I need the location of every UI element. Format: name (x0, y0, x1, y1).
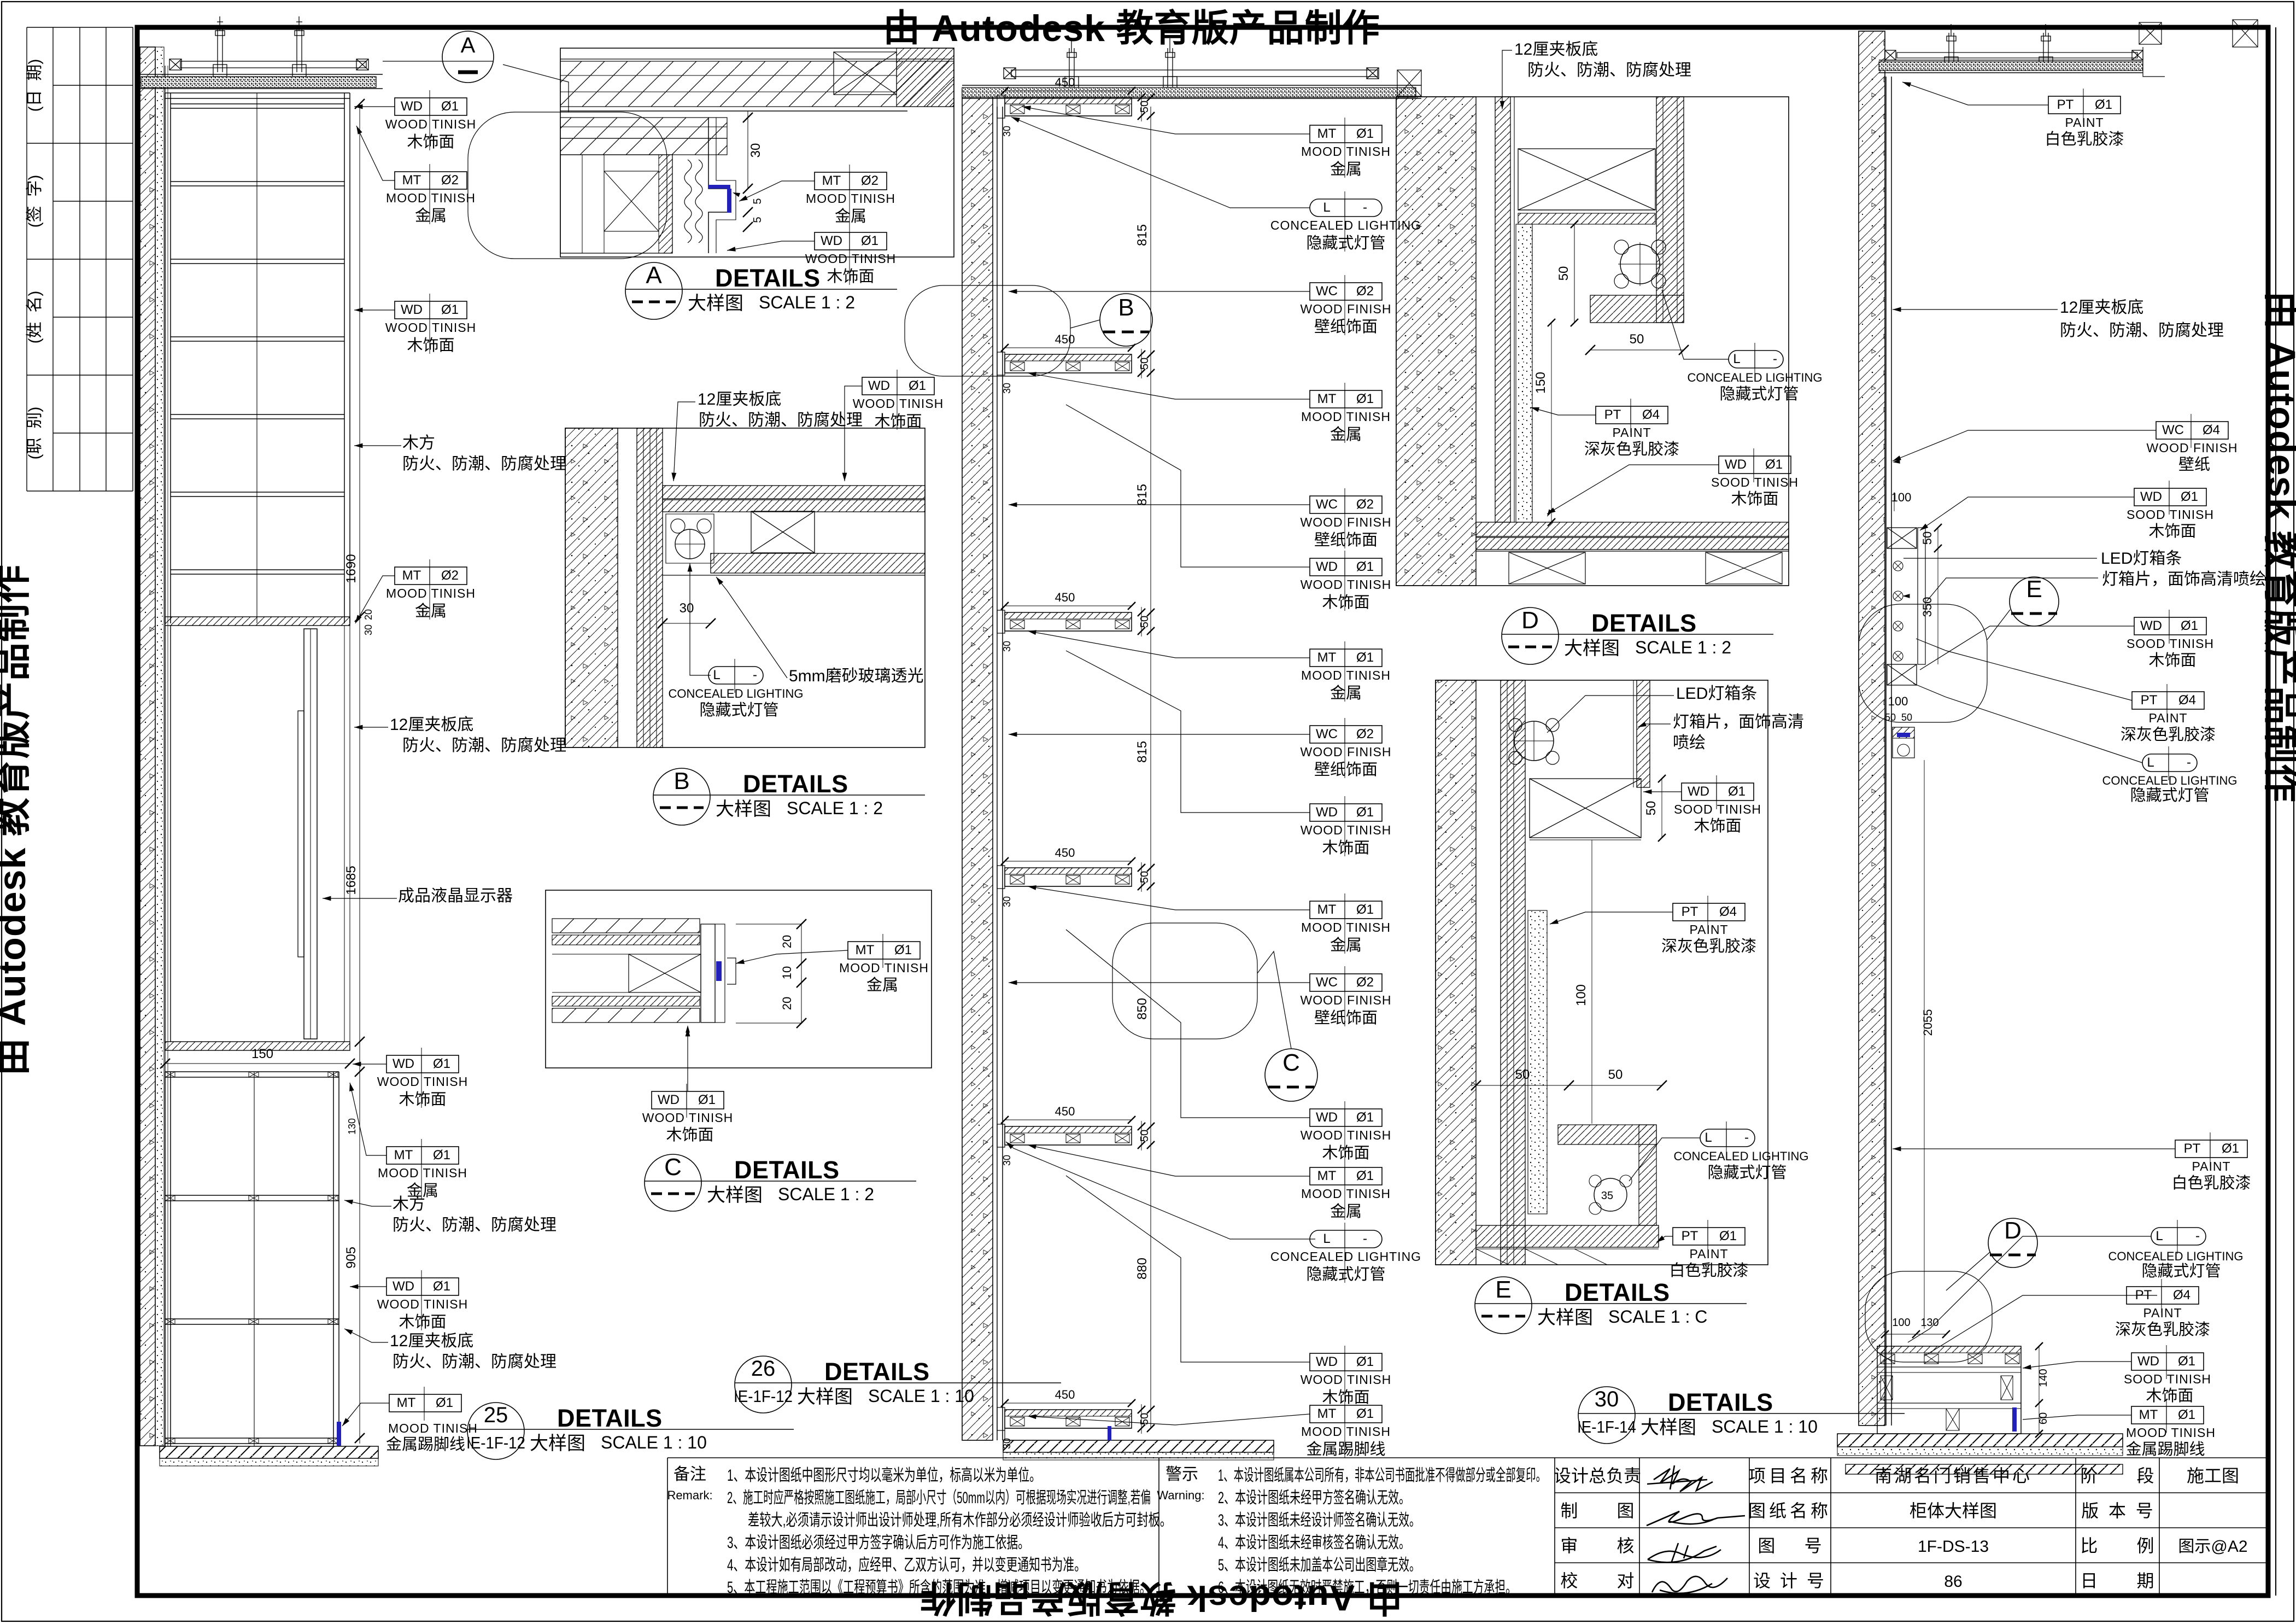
svg-text:450: 450 (1055, 1105, 1075, 1118)
label PT Ø1 (1673, 1228, 1745, 1245)
svg-text:12厘夹板底: 12厘夹板底 (390, 1332, 473, 1350)
drawing 25 ceiling channel (180, 61, 366, 68)
svg-text:防火、防潮、防腐处理: 防火、防潮、防腐处理 (2060, 322, 2224, 340)
drawing 26 right ceiling corner (1397, 70, 1421, 96)
svg-text:4、本设计如有局部改动，应经甲、乙双方认可，并以变更通知书为: 4、本设计如有局部改动，应经甲、乙双方认可，并以变更通知书为准。 (727, 1556, 1086, 1574)
svg-text:WOOD TINISH: WOOD TINISH (853, 396, 944, 411)
label MT Ø1 (1310, 649, 1382, 667)
svg-text:CONCEALED LIGHTING: CONCEALED LIGHTING (1674, 1149, 1809, 1163)
svg-text:比 例: 比 例 (2080, 1536, 2154, 1556)
svg-text:WC: WC (1316, 975, 1338, 990)
svg-text:L: L (1733, 352, 1740, 366)
label MT Ø2 (395, 567, 467, 585)
label PT Ø4 (2127, 1287, 2199, 1304)
svg-text:130: 130 (1920, 1317, 1938, 1329)
svg-text:金属: 金属 (415, 602, 447, 620)
svg-text:图 号: 图 号 (1758, 1536, 1821, 1556)
svg-text:20: 20 (363, 609, 374, 620)
svg-text:3、本设计图纸必须经过甲方签字确认后方可作为施工依据。: 3、本设计图纸必须经过甲方签字确认后方可作为施工依据。 (727, 1534, 1029, 1552)
svg-text:PAINT: PAINT (2148, 711, 2187, 725)
svg-text:PAINT: PAINT (2065, 115, 2104, 130)
title block A (625, 262, 682, 319)
svg-text:灯箱片，面饰高清喷绘: 灯箱片，面饰高清喷绘 (2102, 570, 2266, 588)
svg-text:隐藏式灯管: 隐藏式灯管 (1306, 1265, 1385, 1283)
svg-text:D: D (1521, 607, 1539, 634)
detail E lightbox panel (1637, 680, 1650, 787)
svg-text:隐藏式灯管: 隐藏式灯管 (1719, 385, 1799, 403)
svg-text:12厘夹板底: 12厘夹板底 (390, 716, 473, 734)
svg-text:备注: 备注 (673, 1465, 706, 1483)
svg-text:柜体大样图: 柜体大样图 (1910, 1501, 1997, 1521)
drawing 26 shelf 6 (1005, 1410, 1132, 1428)
drawing 25 wall plaster stipple (155, 47, 164, 1446)
svg-text:大样图: 大样图 (1537, 1307, 1593, 1328)
title block 30 IE-1F-14 (1578, 1387, 1635, 1444)
svg-text:Ø2: Ø2 (1356, 497, 1374, 512)
svg-text:Ø1: Ø1 (2181, 618, 2198, 633)
svg-text:140: 140 (2037, 1369, 2049, 1387)
svg-text:大样图: 大样图 (1564, 638, 1620, 659)
svg-text:木饰面: 木饰面 (399, 1313, 446, 1331)
label WD Ø1 (395, 301, 467, 319)
detail D light fixture (1620, 244, 1660, 284)
drawing 30 ceiling slab band (1879, 62, 2143, 71)
detail A insulation strip (684, 160, 692, 243)
svg-text:木饰面: 木饰面 (2148, 522, 2196, 540)
drawing 30 wall panel lines (1885, 77, 1887, 1426)
svg-text:Ø1: Ø1 (1356, 392, 1374, 406)
detail C board bands (552, 919, 700, 933)
svg-text:Ø1: Ø1 (1356, 126, 1374, 141)
svg-text:SOOD TINISH: SOOD TINISH (2127, 636, 2214, 651)
svg-text:PAINT: PAINT (2143, 1306, 2182, 1320)
svg-text:MOOD TINISH: MOOD TINISH (1301, 668, 1391, 682)
title block table (1555, 1458, 2266, 1596)
svg-text:MOOD TINISH: MOOD TINISH (1301, 410, 1391, 424)
svg-text:1690: 1690 (344, 554, 359, 583)
detail B lower band (711, 553, 925, 573)
svg-text:Ø1: Ø1 (1728, 784, 1746, 799)
svg-text:DETAILS: DETAILS (743, 770, 848, 798)
svg-text:Ø2: Ø2 (1356, 727, 1374, 741)
svg-text:LED灯箱条: LED灯箱条 (2101, 550, 2182, 568)
svg-text:Ø1: Ø1 (1356, 902, 1374, 917)
svg-text:1、本设计图纸属本公司所有，非本公司书面批准不得做部分或全部: 1、本设计图纸属本公司所有，非本公司书面批准不得做部分或全部复印。 (1218, 1467, 1546, 1485)
svg-text:WD: WD (2140, 618, 2162, 633)
svg-text:WOOD FINISH: WOOD FINISH (1301, 515, 1392, 529)
svg-text:CONCEALED LIGHTING: CONCEALED LIGHTING (669, 687, 804, 700)
svg-text:L: L (1323, 1231, 1330, 1246)
svg-text:MT: MT (856, 943, 875, 957)
svg-text:隐藏式灯管: 隐藏式灯管 (1306, 234, 1385, 252)
svg-text:深灰色乳胶漆: 深灰色乳胶漆 (1661, 937, 1756, 955)
label MT Ø1 (1310, 1405, 1382, 1423)
svg-text:Ø2: Ø2 (441, 568, 459, 583)
drawing 30 top right brackets (2139, 22, 2162, 44)
svg-text:815: 815 (1135, 224, 1150, 246)
drawing 30 blue skirting accent (2012, 1407, 2017, 1432)
svg-text:L: L (2156, 1229, 2163, 1243)
svg-text:制 图: 制 图 (1560, 1501, 1634, 1521)
svg-text:金属: 金属 (1330, 684, 1362, 702)
svg-text:2055: 2055 (1921, 1009, 1935, 1036)
callout circle A (442, 31, 494, 83)
svg-text:大样图: 大样图 (1641, 1417, 1696, 1438)
svg-text:WOOD TINISH: WOOD TINISH (1301, 577, 1391, 592)
svg-text:E: E (1495, 1276, 1511, 1303)
svg-text:WC: WC (1316, 727, 1338, 741)
svg-text:Ø1: Ø1 (2178, 1354, 2195, 1369)
svg-text:MOOD TINISH: MOOD TINISH (1301, 144, 1391, 159)
drawing 26 leader lines (1022, 107, 1310, 134)
svg-text:-: - (1773, 352, 1777, 366)
svg-text:大样图: 大样图 (797, 1387, 853, 1407)
detail D outer box (1396, 97, 1789, 586)
detail D concrete column (1396, 97, 1476, 586)
svg-text:深灰色乳胶漆: 深灰色乳胶漆 (1584, 440, 1679, 458)
svg-text:大样图: 大样图 (716, 799, 771, 820)
svg-text:350: 350 (1920, 597, 1934, 617)
svg-text:审 核: 审 核 (1560, 1536, 1634, 1556)
svg-text:CONCEALED LIGHTING: CONCEALED LIGHTING (1688, 371, 1823, 384)
svg-text:IE-1F-12: IE-1F-12 (466, 1433, 525, 1452)
svg-text:WD: WD (821, 233, 842, 248)
svg-text:MOOD TINISH: MOOD TINISH (1301, 1187, 1391, 1201)
drawing 26 ceiling slab band (962, 87, 1416, 97)
svg-text:木饰面: 木饰面 (1731, 490, 1778, 508)
drawing 30 ceiling channel (1897, 52, 2137, 58)
drawing 26 ceiling channel (1011, 70, 1378, 77)
svg-text:Ø1: Ø1 (433, 1148, 450, 1162)
drawing 30 floor (1837, 1434, 2123, 1447)
svg-text:Ø1: Ø1 (2178, 1407, 2195, 1422)
detail A blue accents (708, 185, 730, 189)
label WC Ø2 (1310, 974, 1382, 991)
svg-text:图纸名称: 图纸名称 (1748, 1501, 1831, 1521)
svg-text:Ø1: Ø1 (1356, 1169, 1374, 1183)
svg-text:木饰面: 木饰面 (1694, 817, 1741, 835)
svg-text:5: 5 (752, 198, 764, 204)
svg-text:Ø1: Ø1 (2222, 1141, 2239, 1156)
svg-text:(姓 名): (姓 名) (26, 291, 44, 344)
svg-text:WOOD TINISH: WOOD TINISH (1301, 1128, 1391, 1142)
svg-text:MT: MT (1317, 650, 1337, 665)
svg-text:MT: MT (397, 1395, 416, 1410)
detail E concrete column (1436, 680, 1476, 1265)
svg-text:30: 30 (748, 143, 763, 158)
svg-text:100: 100 (1574, 984, 1589, 1006)
svg-text:1F-DS-13: 1F-DS-13 (1918, 1538, 1989, 1556)
svg-text:木饰面: 木饰面 (1322, 1144, 1369, 1162)
svg-text:Ø1: Ø1 (1356, 1110, 1374, 1125)
label WC Ø4 (2156, 422, 2228, 439)
svg-text:50: 50 (1920, 531, 1934, 545)
svg-text:Ø1: Ø1 (1719, 1229, 1737, 1243)
label WD Ø1 (2134, 617, 2206, 635)
detail B ceiling band (663, 486, 925, 499)
label L - (708, 667, 763, 684)
svg-text:MT: MT (1317, 902, 1337, 917)
detail C outer box (546, 890, 932, 1068)
detail A step profile (708, 118, 728, 253)
svg-text:Ø1: Ø1 (436, 1395, 453, 1410)
drawing 25 panel lines (165, 66, 166, 1446)
svg-text:C: C (1282, 1049, 1300, 1076)
svg-text:WD: WD (1316, 1110, 1338, 1125)
svg-text:深灰色乳胶漆: 深灰色乳胶漆 (2115, 1321, 2210, 1339)
svg-text:成品液晶显示器: 成品液晶显示器 (398, 887, 513, 905)
svg-text:50: 50 (1139, 616, 1151, 628)
label MT Ø1 (848, 942, 920, 959)
detail B x-box batten (751, 511, 815, 553)
svg-text:150: 150 (251, 1047, 273, 1061)
svg-text:SCALE 1 : 10: SCALE 1 : 10 (601, 1433, 707, 1452)
drawing 26 shelf 2 (1005, 354, 1132, 373)
detail D plywood strip (1495, 97, 1510, 522)
label WD Ø1 (386, 1278, 459, 1295)
drawing 25 ceiling hangers (213, 16, 227, 77)
svg-text:壁纸饰面: 壁纸饰面 (1314, 761, 1378, 779)
svg-text:-: - (2187, 755, 2191, 770)
svg-text:WD: WD (393, 1056, 414, 1071)
drawing 30 2055 dim (1924, 760, 1925, 1329)
detail E x-box (1530, 779, 1641, 838)
svg-text:12厘夹板底: 12厘夹板底 (698, 390, 781, 408)
svg-text:MOOD TINISH: MOOD TINISH (839, 961, 929, 975)
drawing 26 vertical dim line (1150, 107, 1151, 1428)
label WC Ø2 (1310, 726, 1382, 743)
detail marker E (2010, 577, 2059, 626)
detail D dims (1574, 224, 1575, 323)
svg-text:白色乳胶漆: 白色乳胶漆 (2171, 1174, 2251, 1192)
svg-text:L: L (713, 668, 720, 682)
label WD Ø1 (1310, 804, 1382, 821)
svg-text:20: 20 (780, 935, 794, 948)
detail E 50 50 dims (1476, 1085, 1662, 1086)
svg-text:SCALE 1 : 2: SCALE 1 : 2 (1635, 638, 1731, 657)
left margin signature table (27, 27, 133, 491)
label WD Ø1 (1682, 783, 1754, 801)
svg-text:CONCEALED LIGHTING: CONCEALED LIGHTING (1270, 1249, 1421, 1264)
svg-text:MOOD TINISH: MOOD TINISH (1301, 1424, 1391, 1439)
svg-text:Ø4: Ø4 (2203, 423, 2220, 437)
drawing 25 lcd display (298, 711, 304, 957)
drawing 30 dim 50 350 (1937, 528, 1938, 548)
svg-text:5、本工程施工范围以《工程预算书》所含的范围为准，增减项目以: 5、本工程施工范围以《工程预算书》所含的范围为准，增减项目以变更通知书为依据。 (727, 1579, 1151, 1597)
svg-text:防火、防潮、防腐处理: 防火、防潮、防腐处理 (402, 455, 566, 473)
callout region C rounded box (1112, 923, 1257, 1039)
svg-text:木饰面: 木饰面 (407, 336, 454, 354)
svg-text:905: 905 (344, 1247, 359, 1269)
label WD Ø1 (815, 232, 887, 250)
svg-text:PT: PT (1604, 407, 1621, 422)
title block C (645, 1154, 701, 1211)
svg-text:深灰色乳胶漆: 深灰色乳胶漆 (2121, 726, 2216, 744)
svg-text:Ø1: Ø1 (894, 943, 912, 957)
label L - (1310, 199, 1382, 217)
drawing 26 shelf 5 (1005, 1126, 1132, 1145)
svg-text:壁纸: 壁纸 (2178, 455, 2210, 474)
detail D right plywood (1656, 97, 1684, 323)
svg-text:20: 20 (780, 997, 794, 1010)
svg-text:PT: PT (2184, 1141, 2201, 1156)
svg-text:-: - (1744, 1130, 1749, 1145)
label WD Ø1 (386, 1055, 459, 1073)
drawing 26 concrete wall hatch (962, 89, 993, 1440)
svg-text:L: L (2147, 755, 2154, 770)
svg-text:MT: MT (822, 173, 841, 188)
svg-text:WD: WD (1316, 805, 1338, 820)
svg-text:-: - (1363, 200, 1367, 215)
svg-text:50: 50 (1630, 332, 1644, 347)
svg-text:SCALE 1 : C: SCALE 1 : C (1608, 1307, 1707, 1327)
label L - (1729, 350, 1783, 368)
label WD Ø1 (2134, 488, 2206, 506)
svg-text:12厘夹板底: 12厘夹板底 (1514, 40, 1598, 59)
svg-text:50: 50 (1139, 358, 1151, 370)
label WD Ø1 (1310, 1353, 1382, 1371)
label MT Ø2 (815, 172, 887, 190)
svg-text:-: - (753, 668, 757, 682)
svg-text:Ø1: Ø1 (2181, 489, 2198, 504)
svg-text:PT: PT (1682, 1229, 1698, 1243)
svg-text:WOOD FINISH: WOOD FINISH (1301, 302, 1392, 316)
detail E lower cove (1558, 1125, 1656, 1144)
svg-text:DETAILS: DETAILS (824, 1358, 930, 1386)
drawing 25 lower cabinet (165, 1072, 339, 1446)
svg-text:450: 450 (1055, 75, 1075, 89)
svg-text:(职 别): (职 别) (26, 407, 44, 460)
svg-text:木饰面: 木饰面 (2148, 651, 2196, 669)
drawing 30 small lighting assembly (1893, 727, 1914, 758)
svg-text:IE-1F-14: IE-1F-14 (1577, 1417, 1636, 1436)
svg-text:隐藏式灯管: 隐藏式灯管 (1707, 1164, 1787, 1182)
svg-text:WD: WD (401, 99, 423, 114)
svg-text:SOOD TINISH: SOOD TINISH (2124, 1372, 2211, 1386)
svg-text:30: 30 (363, 624, 374, 635)
svg-text:WOOD FINISH: WOOD FINISH (1301, 745, 1392, 759)
svg-text:日 期: 日 期 (2080, 1571, 2154, 1591)
svg-text:IE-1F-12: IE-1F-12 (734, 1387, 793, 1406)
svg-text:WD: WD (1688, 784, 1709, 799)
detail marker C (1265, 1049, 1317, 1101)
svg-text:木饰面: 木饰面 (666, 1126, 713, 1144)
svg-text:金属: 金属 (835, 207, 866, 225)
svg-text:Ø4: Ø4 (2178, 693, 2196, 708)
svg-text:B: B (673, 768, 689, 795)
svg-text:阶 段: 阶 段 (2080, 1466, 2154, 1486)
svg-text:防火、防潮、防腐处理: 防火、防潮、防腐处理 (699, 411, 863, 429)
svg-text:815: 815 (1135, 484, 1150, 506)
svg-text:SCALE 1 : 2: SCALE 1 : 2 (778, 1184, 874, 1204)
svg-text:25: 25 (484, 1403, 508, 1427)
label L - (1310, 1230, 1382, 1248)
svg-text:26: 26 (751, 1357, 776, 1381)
drawing 26 shelf 4 (1005, 868, 1132, 886)
svg-text:版 本 号: 版 本 号 (2081, 1501, 2153, 1521)
svg-text:WD: WD (868, 378, 890, 393)
svg-text:(日 期): (日 期) (26, 59, 44, 112)
svg-text:DETAILS: DETAILS (1565, 1278, 1670, 1306)
svg-text:南湖名门销售中心: 南湖名门销售中心 (1875, 1466, 2032, 1486)
drawing 30 ceiling hangers (1944, 24, 1958, 67)
svg-text:WD: WD (658, 1093, 680, 1107)
svg-text:设 计 号: 设 计 号 (1753, 1571, 1826, 1591)
label WD Ø1 (652, 1091, 724, 1109)
svg-text:图示@A2: 图示@A2 (2178, 1538, 2247, 1556)
title block E (1475, 1277, 1532, 1334)
svg-text:WC: WC (1316, 497, 1338, 512)
svg-text:WD: WD (401, 302, 423, 317)
svg-text:MT: MT (1317, 392, 1337, 406)
svg-text:壁纸饰面: 壁纸饰面 (1314, 531, 1378, 549)
drawing 30 bottom cabinet (1877, 1346, 2021, 1434)
svg-text:LED灯箱条: LED灯箱条 (1676, 685, 1757, 703)
svg-text:CONCEALED LIGHTING: CONCEALED LIGHTING (2108, 1249, 2244, 1263)
svg-text:木饰面: 木饰面 (2146, 1387, 2193, 1405)
svg-text:30: 30 (1001, 641, 1012, 652)
svg-text:50: 50 (1644, 801, 1659, 816)
svg-text:Ø1: Ø1 (1356, 805, 1374, 820)
svg-text:WOOD TINISH: WOOD TINISH (642, 1111, 733, 1125)
svg-text:金属踢脚线: 金属踢脚线 (386, 1435, 465, 1453)
svg-text:4、本设计图纸未经审核签名确认无效。: 4、本设计图纸未经审核签名确认无效。 (1218, 1534, 1410, 1552)
svg-text:木饰面: 木饰面 (874, 412, 922, 430)
detail A dims (747, 111, 748, 189)
svg-text:E: E (2026, 576, 2042, 603)
callout region B rounded box (905, 285, 1070, 376)
svg-text:2、本设计图纸未经甲方签名确认无效。: 2、本设计图纸未经甲方签名确认无效。 (1218, 1489, 1410, 1507)
svg-text:86: 86 (1944, 1573, 1962, 1591)
detail B cove lighting (671, 519, 685, 533)
svg-text:Ø4: Ø4 (1642, 407, 1660, 422)
detail E outer box (1436, 680, 1768, 1265)
title block B (653, 768, 710, 825)
svg-text:30: 30 (1595, 1387, 1619, 1411)
detail C right cap (701, 924, 715, 1023)
svg-text:L: L (1705, 1130, 1712, 1145)
svg-text:6、本设计图纸无效时严禁施工，否则一切责任由施工方承担。: 6、本设计图纸无效时严禁施工，否则一切责任由施工方承担。 (1218, 1579, 1516, 1597)
notes strip frame (667, 1457, 2266, 1458)
svg-text:SCALE 1 : 2: SCALE 1 : 2 (759, 293, 855, 312)
drawing 30 100 dim (1894, 492, 1895, 511)
svg-text:50: 50 (1901, 712, 1912, 723)
label WD Ø1 (1310, 558, 1382, 576)
svg-text:WOOD TINISH: WOOD TINISH (377, 1074, 468, 1089)
svg-text:2、施工时应严格按照施工图纸施工，局部小尺寸（50mm以内）: 2、施工时应严格按照施工图纸施工，局部小尺寸（50mm以内）可根据现场实况进行调… (727, 1489, 1151, 1507)
svg-text:12厘夹板底: 12厘夹板底 (2060, 299, 2143, 317)
label WD Ø1 (862, 377, 934, 395)
drawing 26 floor (1003, 1440, 1274, 1452)
label WD Ø1 (2131, 1353, 2204, 1370)
svg-text:815: 815 (1135, 741, 1150, 763)
svg-text:Ø1: Ø1 (861, 233, 878, 248)
svg-text:A: A (646, 262, 662, 289)
svg-text:WOOD FINISH: WOOD FINISH (1301, 993, 1392, 1007)
detail E bottom band (1476, 1225, 1659, 1247)
svg-text:金属: 金属 (415, 207, 447, 225)
detail marker B (1100, 294, 1152, 346)
label MT Ø1 (386, 1147, 459, 1164)
svg-text:WD: WD (2140, 489, 2162, 504)
svg-text:PAINT: PAINT (2192, 1159, 2230, 1173)
svg-text:木饰面: 木饰面 (827, 267, 874, 285)
svg-text:MOOD TINISH: MOOD TINISH (2126, 1426, 2216, 1440)
svg-text:WOOD FINISH: WOOD FINISH (2147, 441, 2238, 455)
label WD Ø1 (1719, 456, 1791, 474)
svg-text:MT: MT (394, 1148, 413, 1162)
svg-text:项目名称: 项目名称 (1748, 1466, 1831, 1486)
